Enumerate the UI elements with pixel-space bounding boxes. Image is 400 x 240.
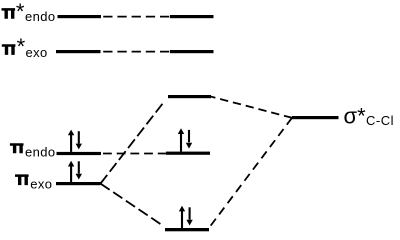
svg-text:endo: endo [25,9,56,24]
dashed line pi-endo [103,153,166,155]
level sigma* combination (upper middle) [168,95,211,98]
dashed line sigma*C-Cl to bottom level [210,118,292,227]
level pi*endo left [58,15,102,18]
level pi*endo right [170,15,214,18]
svg-text:σ*: σ* [344,103,367,128]
svg-text:exo: exo [30,176,52,191]
electron pair arrows on pi-endo left [68,130,82,152]
level pi-endo middle [166,152,210,155]
electron pair arrows on pi-exo left [68,161,82,182]
label sigma*C-Cl [344,103,395,128]
dashed line pi*exo [103,51,170,53]
level pi-endo left [57,152,102,155]
level pi*exo left [56,50,101,53]
label pi*endo [2,0,56,24]
svg-text:*: * [16,0,25,24]
svg-text:endo: endo [25,144,56,159]
level pi-exo left [56,182,101,185]
level pi*exo right [170,50,214,53]
electron pair arrows on bottom level [179,206,193,228]
label pi-endo [10,143,56,159]
level sigma*C-Cl [292,116,339,119]
dashed line upper-middle to pi-exo [101,101,165,183]
svg-text:*: * [17,34,26,59]
svg-text:exo: exo [26,45,48,60]
dashed line upper-middle to sigma*C-Cl [211,97,292,118]
electron pair arrows on pi-endo middle [178,128,192,151]
label pi-exo [15,174,52,191]
dashed line pi*endo [103,16,170,18]
svg-text:C-Cl: C-Cl [366,113,394,128]
label pi*exo [2,34,48,60]
dashed line pi-exo to bottom level [101,184,161,225]
level sigma combination (bottom) [165,228,209,231]
